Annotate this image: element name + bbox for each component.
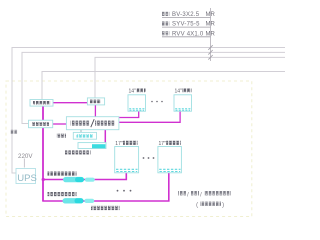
annotation text right xyxy=(178,191,231,209)
dots between A and B xyxy=(151,101,163,103)
printer box xyxy=(73,132,96,139)
dots between C and D xyxy=(143,157,155,159)
box character generator xyxy=(29,120,53,128)
wire to sequencer xyxy=(42,72,285,100)
svg-text:14": 14" xyxy=(175,89,183,95)
row1 pill 2 xyxy=(85,178,95,182)
wire to character generator xyxy=(22,52,285,123)
svg-text:17": 17" xyxy=(159,141,167,147)
svg-text:(: ( xyxy=(196,202,199,209)
monitor B 14" xyxy=(174,95,192,111)
monitor C 17" xyxy=(115,147,139,173)
wire sequencer to decoder xyxy=(53,102,87,104)
svg-text:): ) xyxy=(222,202,224,209)
row2 amplifier label xyxy=(48,192,77,196)
printer label xyxy=(57,134,67,138)
monitor A 14" xyxy=(128,95,146,111)
wire chargen to host xyxy=(53,123,67,125)
row2 wire to monitor D xyxy=(43,173,169,202)
row2 pill 1 xyxy=(63,198,84,203)
leader tick 1 xyxy=(208,45,212,50)
svg-text:14": 14" xyxy=(129,89,137,95)
bottom title xyxy=(91,206,120,210)
monitor D 17" xyxy=(158,147,182,173)
junction row1/bus xyxy=(42,178,45,181)
leader tick 3 xyxy=(208,55,212,60)
svg-text:/: / xyxy=(187,191,189,198)
box B decoder xyxy=(87,98,104,105)
wire printer stub xyxy=(80,130,82,133)
legend row 1 xyxy=(162,12,170,16)
host box (video switcher / control host) xyxy=(66,117,119,130)
row1 wire to monitor C xyxy=(43,173,127,180)
svg-text:17": 17" xyxy=(115,141,123,147)
wire 220V stub xyxy=(23,159,25,168)
row2 pill 2 xyxy=(84,199,94,203)
leader tick 2 xyxy=(208,50,212,55)
svg-text:220V: 220V xyxy=(18,153,33,160)
magenta bus (left vertical) xyxy=(42,106,44,202)
row1 distributor label xyxy=(48,172,77,176)
wire decoder to host xyxy=(94,105,96,117)
legend row 2 xyxy=(162,21,170,25)
wire host to monitor A xyxy=(119,111,139,118)
legend row 3 xyxy=(162,31,170,35)
wire host to VCR xyxy=(101,130,106,147)
box A sequencer xyxy=(30,100,53,107)
dots below monitor C xyxy=(117,190,132,192)
row1 pill 1 xyxy=(63,177,84,182)
wire host to monitor B xyxy=(119,111,180,123)
cabinet label xyxy=(11,130,18,134)
legend leader line xyxy=(210,8,212,61)
VCR (time lapse recorder) xyxy=(78,143,106,149)
wire to decoder xyxy=(95,57,285,98)
UPS box xyxy=(16,169,37,185)
svg-text:/: / xyxy=(200,191,202,198)
VCR label xyxy=(65,150,91,154)
svg-text:UPS: UPS xyxy=(17,173,37,184)
drawing frame (dashed pale yellow) xyxy=(6,81,252,217)
wire power to UPS xyxy=(12,48,285,174)
